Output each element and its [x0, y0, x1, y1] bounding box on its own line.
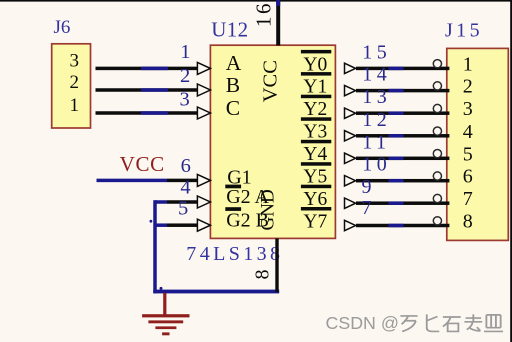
- svg-text:7: 7: [362, 197, 377, 219]
- svg-text:VCC: VCC: [120, 152, 165, 176]
- svg-text:1: 1: [70, 95, 80, 116]
- svg-text:Y5: Y5: [303, 167, 327, 188]
- svg-text:3: 3: [179, 88, 189, 110]
- svg-text:2: 2: [70, 72, 80, 93]
- svg-text:Y2: Y2: [303, 99, 327, 120]
- svg-text:5: 5: [178, 197, 188, 219]
- svg-text:3: 3: [70, 51, 80, 72]
- svg-text:74LS138: 74LS138: [186, 243, 283, 265]
- svg-text:11: 11: [362, 131, 390, 153]
- svg-text:1: 1: [463, 53, 473, 75]
- svg-text:7: 7: [463, 188, 473, 210]
- svg-text:9: 9: [362, 176, 377, 198]
- svg-text:10: 10: [362, 154, 391, 176]
- svg-text:16: 16: [251, 1, 275, 27]
- svg-text:Y3: Y3: [303, 122, 327, 143]
- svg-text:A: A: [226, 51, 242, 75]
- svg-text:6: 6: [181, 155, 191, 177]
- svg-text:4: 4: [180, 177, 190, 199]
- svg-text:8: 8: [463, 211, 473, 233]
- svg-text:J6: J6: [54, 17, 71, 38]
- svg-text:C: C: [226, 96, 240, 120]
- svg-text:8: 8: [251, 270, 273, 280]
- svg-text:Y1: Y1: [303, 77, 327, 98]
- svg-text:4: 4: [463, 121, 473, 143]
- svg-text:Y6: Y6: [303, 189, 327, 210]
- svg-text:J15: J15: [445, 19, 483, 41]
- svg-text:B: B: [226, 73, 240, 97]
- svg-text:Y4: Y4: [303, 144, 327, 165]
- svg-text:12: 12: [362, 109, 391, 131]
- svg-text:VCC: VCC: [260, 60, 282, 102]
- svg-text:U12: U12: [211, 18, 248, 42]
- svg-text:CSDN @: CSDN @: [326, 313, 399, 333]
- svg-text:Y7: Y7: [303, 211, 327, 232]
- svg-text:14: 14: [362, 64, 391, 86]
- svg-text:1: 1: [180, 41, 190, 63]
- svg-text:5: 5: [463, 143, 473, 165]
- svg-text:6: 6: [463, 166, 473, 188]
- svg-text:GND: GND: [258, 189, 279, 230]
- svg-text:13: 13: [362, 86, 391, 108]
- svg-text:15: 15: [362, 41, 391, 63]
- svg-text:2: 2: [463, 76, 473, 98]
- svg-text:3: 3: [463, 98, 473, 120]
- svg-text:2: 2: [180, 65, 190, 87]
